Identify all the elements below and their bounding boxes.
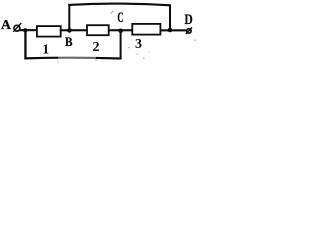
resistor R3 [132, 24, 160, 35]
wire R1 to R2 [60, 29, 87, 31]
scan speckles [111, 11, 114, 14]
wire R3 to D [161, 29, 186, 31]
svg-text:D: D [184, 12, 193, 28]
bridge right vertical wire [169, 4, 171, 30]
svg-text:B: B [65, 34, 73, 49]
wire down from A junction [24, 30, 26, 59]
terminal D [186, 27, 192, 34]
svg-text:2: 2 [93, 40, 100, 55]
junction dot below A [23, 28, 27, 32]
node B dot [67, 28, 72, 33]
terminal A [13, 23, 21, 32]
bottom return wire [24, 57, 120, 60]
svg-text:3: 3 [135, 37, 142, 52]
wire up from bottom to node C [120, 30, 122, 59]
node C dot [118, 29, 123, 34]
bottom wire fade (scan) [58, 56, 96, 59]
svg-text:A: A [1, 18, 12, 33]
svg-text:1: 1 [42, 42, 49, 57]
wire A terminal to R1 [19, 29, 37, 31]
bridge top horizontal wire [68, 4, 170, 6]
resistor R2 [87, 25, 109, 35]
resistor R1 [37, 26, 61, 36]
wire R2 to R3 [109, 29, 132, 31]
junction dot before D [168, 28, 173, 33]
bridge left vertical wire at B [68, 4, 70, 31]
svg-text:C: C [117, 10, 123, 26]
